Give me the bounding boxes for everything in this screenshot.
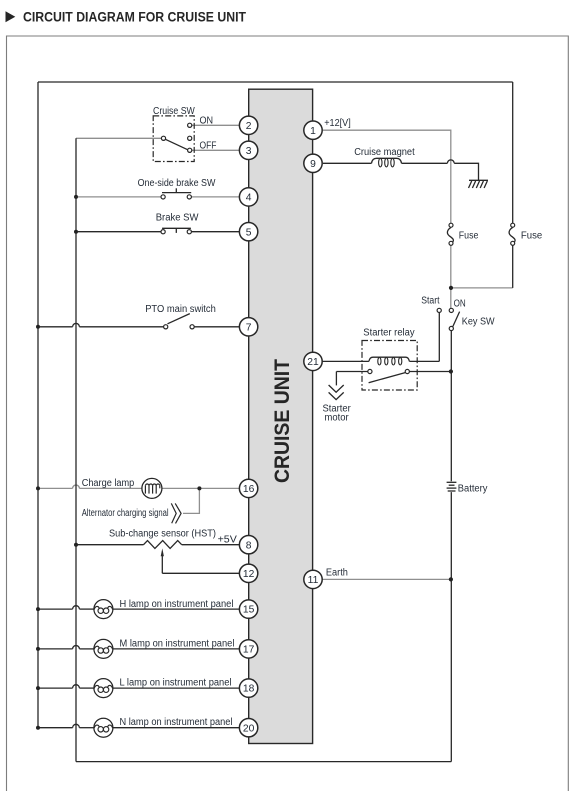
svg-text:Charge lamp: Charge lamp (82, 478, 135, 489)
svg-text:12: 12 (243, 569, 255, 580)
svg-text:18: 18 (243, 684, 255, 695)
svg-text:+5V: +5V (218, 534, 238, 545)
svg-text:Cruise SW: Cruise SW (153, 106, 195, 117)
svg-text:Fuse: Fuse (459, 230, 479, 241)
svg-text:4: 4 (246, 193, 252, 204)
svg-text:ON: ON (200, 116, 214, 127)
svg-text:CIRCUIT DIAGRAM FOR CRUISE UNI: CIRCUIT DIAGRAM FOR CRUISE UNIT (23, 10, 247, 25)
svg-text:PTO main switch: PTO main switch (145, 304, 216, 315)
svg-text:OFF: OFF (200, 141, 217, 152)
svg-text:21: 21 (307, 357, 319, 368)
svg-text:CRUISE UNIT: CRUISE UNIT (271, 359, 294, 483)
svg-text:3: 3 (246, 146, 252, 157)
svg-text:motor: motor (325, 413, 350, 424)
svg-text:2: 2 (246, 121, 252, 132)
svg-text:Fuse: Fuse (521, 230, 543, 241)
svg-text:L lamp on instrument panel: L lamp on instrument panel (120, 677, 232, 688)
svg-text:11: 11 (308, 575, 319, 586)
svg-text:One-side brake SW: One-side brake SW (138, 178, 216, 189)
svg-text:7: 7 (246, 322, 252, 333)
svg-text:Sub-change sensor (HST): Sub-change sensor (HST) (109, 528, 216, 539)
svg-text:Brake SW: Brake SW (156, 213, 199, 224)
svg-text:16: 16 (243, 484, 255, 495)
svg-text:Key SW: Key SW (462, 317, 495, 328)
svg-text:H lamp on instrument panel: H lamp on instrument panel (120, 599, 234, 610)
svg-text:Earth: Earth (326, 568, 348, 579)
svg-text:17: 17 (243, 645, 255, 656)
svg-text:M lamp on instrument panel: M lamp on instrument panel (120, 638, 235, 649)
svg-text:5: 5 (246, 227, 252, 238)
svg-text:8: 8 (246, 540, 252, 551)
svg-text:9: 9 (310, 159, 316, 170)
svg-text:Starter relay: Starter relay (363, 327, 414, 338)
svg-text:Alternator charging signal: Alternator charging signal (82, 508, 169, 519)
svg-text:Cruise magnet: Cruise magnet (354, 147, 415, 158)
svg-text:Battery: Battery (458, 483, 488, 494)
svg-text:+12[V]: +12[V] (324, 118, 351, 129)
svg-text:Start: Start (421, 295, 439, 306)
svg-text:20: 20 (243, 723, 255, 734)
svg-text:15: 15 (243, 605, 255, 616)
svg-text:N lamp on instrument panel: N lamp on instrument panel (120, 717, 233, 728)
svg-text:1: 1 (310, 126, 316, 137)
svg-text:ON: ON (454, 299, 466, 310)
